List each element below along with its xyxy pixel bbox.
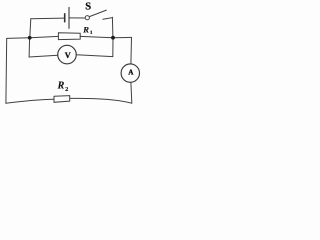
wire voltmeter row right corner up to node J2 <box>112 38 114 57</box>
wire voltmeter row left <box>29 55 58 57</box>
svg-text:R: R <box>82 24 89 34</box>
resistor R1 box <box>58 33 80 40</box>
wire top-left horizontal to battery <box>31 17 64 20</box>
svg-text:V: V <box>65 51 71 60</box>
wire bottom right segment <box>70 98 132 103</box>
wire ammeter to bottom-right corner <box>130 82 133 103</box>
wire resistor R1 to node J2 <box>80 36 113 37</box>
switch S blade <box>89 10 106 17</box>
wire TR corner vertical down to node J2 <box>111 17 114 37</box>
wire node J1 down to voltmeter row <box>28 38 31 57</box>
wire node J1 to resistor R1 <box>30 36 59 37</box>
switch S pivot circle <box>85 16 89 20</box>
voltmeter V circle <box>58 45 77 64</box>
switch S fixed contact wire <box>103 18 113 20</box>
wire left corner to node J1 <box>7 37 30 40</box>
wire voltmeter row right <box>76 55 113 57</box>
node J2 junction dot <box>111 36 115 40</box>
battery B1 short plate <box>64 14 66 22</box>
battery B1 long plate <box>68 7 70 28</box>
wire right vertical to ammeter <box>130 37 133 64</box>
svg-text:A: A <box>128 69 134 77</box>
wire left vertical <box>5 38 8 103</box>
node J1 junction dot <box>28 36 32 40</box>
wire battery to switch <box>70 17 86 19</box>
svg-text:2: 2 <box>65 86 68 93</box>
resistor R2 box <box>54 96 70 103</box>
svg-text:S: S <box>85 2 91 13</box>
svg-text:R: R <box>57 81 65 92</box>
svg-text:1: 1 <box>90 30 93 36</box>
ammeter A circle <box>121 64 139 82</box>
wire TL corner vertical down to node J1 <box>30 19 31 38</box>
wire bottom left segment <box>6 99 54 103</box>
wire node J2 to right branch corner <box>113 36 132 38</box>
